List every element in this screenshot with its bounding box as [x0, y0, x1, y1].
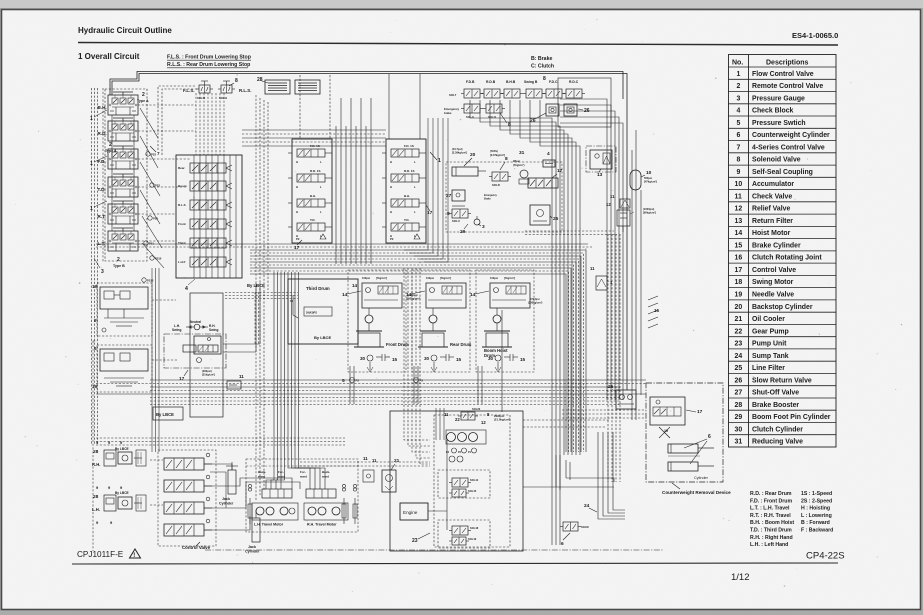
svg-text:8: 8: [737, 157, 741, 164]
svg-text:15: 15: [392, 357, 398, 362]
svg-text:H: H: [296, 185, 298, 189]
right horizontals to relief 12: [525, 230, 614, 232]
svg-text:H : Hoisting: H : Hoisting: [801, 506, 830, 512]
parts table: [729, 55, 837, 448]
svg-text:[0.07kg/cm²]: [0.07kg/cm²]: [490, 153, 505, 157]
travel brake valves: [262, 489, 292, 498]
svg-text:Descriptions: Descriptions: [766, 60, 809, 67]
swing control valve 17: [194, 336, 221, 354]
svg-text:Relief Valve: Relief Valve: [752, 206, 790, 213]
svg-text:Clutch Cylinder: Clutch Cylinder: [752, 426, 803, 433]
manifold valve unit Boom: [178, 181, 232, 191]
svg-text:8: 8: [235, 78, 238, 84]
svg-text:Check Block: Check Block: [752, 108, 794, 115]
svg-text:28: 28: [93, 449, 99, 455]
return filter 13: [590, 150, 612, 169]
control valve spool 2: [164, 480, 204, 492]
pressure switch PS3: [146, 152, 150, 156]
svg-text:SOL18: SOL18: [470, 526, 479, 530]
R.H. travel motor: [304, 503, 348, 520]
svg-text:PS10: PS10: [155, 257, 162, 261]
svg-text:L : Lowering: L : Lowering: [801, 513, 832, 519]
svg-text:L.T. : L.H. Travel: L.T. : L.H. Travel: [750, 506, 790, 512]
svg-text:L.H. : Left Hand: L.H. : Left Hand: [750, 542, 788, 548]
brake solenoid valves 8: [464, 89, 480, 98]
svg-text:R.D.: R.D.: [98, 131, 107, 136]
svg-text:C: Clutch: C: Clutch: [531, 64, 554, 70]
svg-text:ES4-1-0065.0: ES4-1-0065.0: [792, 31, 838, 40]
svg-text:Accumulator: Accumulator: [752, 181, 794, 188]
svg-text:B.H.B: B.H.B: [506, 80, 516, 84]
svg-text:ward: ward: [299, 475, 307, 479]
svg-text:L.H. Travel Motor: L.H. Travel Motor: [254, 523, 284, 527]
pressure gauge 3: [474, 219, 480, 225]
svg-text:2: 2: [117, 257, 120, 263]
svg-text:10: 10: [646, 170, 652, 176]
svg-text:11: 11: [372, 458, 377, 463]
pilot dashed header: [158, 86, 196, 150]
svg-text:(290psi): (290psi): [202, 369, 212, 373]
remote control valve 2 (T.D.): [98, 174, 139, 197]
line filter blocks 25: [265, 80, 290, 94]
line filter 25: [530, 205, 550, 225]
third drum box: [288, 279, 358, 344]
pump right exits: [523, 419, 610, 421]
manifold valve unit Front: [178, 219, 232, 229]
manifold to bank horizontals: [242, 129, 386, 131]
svg-text:31: 31: [519, 150, 525, 156]
pump unit 23 enclosure: [390, 411, 523, 551]
svg-text:4-Series Control Valve: 4-Series Control Valve: [752, 144, 825, 151]
svg-text:H: H: [390, 160, 392, 164]
footer rule: [72, 563, 838, 564]
third drum inner hook: [293, 295, 298, 318]
engine-pump connects: [349, 366, 351, 404]
counterweight cylinder 6a: [668, 444, 698, 453]
self-seal couplings 9: [248, 484, 251, 487]
svg-text:By LBCE: By LBCE: [156, 412, 174, 417]
mid connects swing: [152, 299, 176, 301]
svg-text:Cylinder: Cylinder: [219, 502, 234, 506]
svg-text:R.D. 1S: R.D. 1S: [404, 169, 415, 173]
solenoid box SOL14: [438, 470, 490, 498]
bottom-left bus band: [96, 437, 345, 439]
mid bus band: [250, 250, 586, 452]
svg-text:P2: P2: [390, 237, 394, 241]
svg-text:Self-Seal Coupling: Self-Seal Coupling: [752, 169, 813, 176]
remote control valve 2 (B.H.): [98, 92, 139, 115]
remote control valve 2 (F.D.): [98, 146, 139, 169]
svg-text:B.H.: B.H.: [310, 194, 316, 198]
solenoid valve 6: [563, 522, 578, 531]
svg-text:(330kg/cm²): (330kg/cm²): [528, 301, 543, 305]
control valve cascade lines: [204, 464, 232, 470]
svg-text:[7kg/cm²]: [7kg/cm²]: [440, 276, 451, 280]
left edge vertical bus: [91, 88, 93, 445]
svg-text:21: 21: [735, 316, 743, 323]
svg-text:Drum: Drum: [484, 353, 495, 358]
check valve 27: [452, 190, 465, 201]
svg-text:[21kg/cm²]: [21kg/cm²]: [202, 373, 215, 377]
svg-text:(34.7psi): (34.7psi): [452, 147, 463, 151]
rotating joint hatch: [648, 296, 658, 300]
svg-text:8: 8: [508, 122, 511, 128]
lower bus band: [150, 379, 646, 381]
svg-text:8: 8: [447, 211, 450, 217]
svg-text:8: 8: [543, 76, 546, 82]
remote control valve 2 (R.T.): [98, 201, 139, 224]
svg-text:13: 13: [597, 172, 603, 178]
remote control valve 2 (R.D.): [98, 118, 139, 141]
svg-text:100psi: 100psi: [426, 276, 434, 280]
svg-text:B.H.: B.H.: [98, 105, 107, 110]
svg-text:Control Valve: Control Valve: [752, 267, 796, 274]
pilot lines with pressure switches: [140, 108, 158, 138]
svg-text:SOLR: SOLR: [492, 183, 500, 187]
svg-text:Sump Tank: Sump Tank: [752, 353, 789, 360]
svg-text:SOL7: SOL7: [449, 93, 457, 97]
svg-text:Cylinder: Cylinder: [694, 476, 709, 480]
svg-text:L: L: [320, 160, 322, 164]
svg-text:By LBCE: By LBCE: [115, 491, 129, 495]
svg-text:F.D.C: F.D.C: [549, 80, 558, 84]
svg-text:Clutch Rotating Joint: Clutch Rotating Joint: [752, 255, 822, 262]
svg-text:Back-: Back-: [322, 470, 330, 474]
svg-text:T.D.: T.D.: [404, 218, 410, 222]
svg-text:2: 2: [737, 83, 741, 90]
svg-text:11: 11: [444, 412, 449, 417]
slow return valve 26: [546, 104, 559, 116]
engine box: [400, 503, 428, 520]
svg-text:[7kg/cm²]: [7kg/cm²]: [504, 276, 515, 280]
4-series control valve bank 7 (left): [288, 139, 332, 243]
solenoid drop bundle: [470, 100, 552, 545]
svg-text:Back-: Back-: [258, 470, 266, 474]
svg-text:4: 4: [547, 151, 550, 157]
title rule: [78, 43, 838, 46]
manifold valve unit L.H.F: [178, 257, 232, 267]
remote control valve 2 (L.T.): [98, 228, 139, 251]
mid bus band long pair: [96, 243, 588, 245]
slow return valve 26 right: [616, 390, 636, 409]
svg-text:R.L.S.: R.L.S.: [239, 88, 251, 93]
svg-text:4: 4: [737, 108, 741, 115]
svg-text:28: 28: [735, 402, 743, 409]
jack cylinder A: [228, 470, 236, 494]
svg-text:P2: P2: [296, 237, 300, 241]
svg-text:8: 8: [505, 156, 508, 162]
svg-text:23: 23: [412, 538, 418, 544]
svg-text:28: 28: [257, 77, 263, 83]
counterweight feed horizontals: [562, 409, 646, 411]
svg-text:Boom Foot Pin Cylinder: Boom Foot Pin Cylinder: [752, 414, 831, 421]
svg-text:Brake: Brake: [484, 198, 491, 201]
svg-text:R.T.: R.T.: [98, 214, 106, 219]
front drum motor group 14/15/30: [342, 270, 409, 372]
svg-text:11: 11: [363, 456, 368, 461]
svg-text:14: 14: [352, 283, 358, 288]
bottom mid horizontals: [300, 461, 430, 463]
svg-text:Oil Cooler: Oil Cooler: [752, 316, 785, 323]
svg-text:Brake Booster: Brake Booster: [752, 402, 799, 409]
svg-text:13: 13: [735, 218, 743, 225]
svg-text:1: 1: [737, 71, 741, 78]
slow return valve 26: [564, 104, 577, 116]
right lower verticals: [607, 234, 609, 482]
solenoid valve 8 SOLU: [452, 209, 468, 218]
svg-text:Reducing Valve: Reducing Valve: [752, 439, 803, 446]
pressure switch PS5: [148, 216, 152, 220]
svg-text:3: 3: [737, 95, 741, 102]
clutch solenoid wrap box: [558, 78, 611, 127]
svg-text:1 Overall Circuit: 1 Overall Circuit: [78, 52, 140, 61]
svg-text:14: 14: [342, 292, 348, 298]
svg-text:1/12: 1/12: [731, 572, 750, 583]
svg-text:Hoist Motor: Hoist Motor: [752, 230, 791, 237]
svg-text:2: 2: [109, 142, 112, 148]
gear pumps 22: [447, 433, 456, 442]
svg-text:R.D. 1S: R.D. 1S: [310, 169, 321, 173]
svg-text:L: L: [414, 210, 416, 214]
svg-text:17: 17: [697, 409, 703, 415]
svg-text:F : Backward: F : Backward: [801, 528, 833, 534]
return filter 13 enclosure: [586, 146, 616, 172]
pump feed bundle: [404, 268, 430, 440]
svg-text:R.H. Travel Motor: R.H. Travel Motor: [307, 523, 337, 527]
svg-text:Engine: Engine: [403, 510, 418, 515]
svg-text:22: 22: [735, 328, 743, 335]
svg-text:Type B: Type B: [113, 264, 125, 268]
svg-text:4724psi: 4724psi: [530, 297, 540, 301]
svg-text:7: 7: [737, 144, 741, 151]
svg-text:T.D. : Third Drum: T.D. : Third Drum: [750, 528, 792, 534]
control valve 17 cw: [650, 397, 685, 425]
rear drum motor group 14/15/30: [406, 270, 472, 372]
solenoid valve 8 SOLR: [492, 172, 508, 181]
svg-text:24: 24: [584, 503, 590, 509]
svg-text:(7kPa): (7kPa): [490, 149, 498, 153]
pressure switch PS10: [150, 256, 154, 260]
svg-text:100psi: 100psi: [362, 276, 370, 280]
svg-text:6: 6: [561, 541, 564, 547]
L.H. travel motor: [252, 503, 298, 520]
svg-text:18: 18: [735, 279, 743, 286]
svg-text:1: 1: [610, 280, 613, 285]
svg-text:29: 29: [735, 414, 743, 421]
svg-text:7: 7: [157, 151, 160, 156]
top scanner strip: [0, 0, 923, 8]
svg-text:500psi: 500psi: [644, 176, 652, 180]
manifold internal vertical lines: [193, 155, 195, 278]
svg-text:29(43)PS: 29(43)PS: [306, 311, 317, 315]
svg-text:27: 27: [446, 193, 452, 199]
svg-text:R.D.B: R.D.B: [486, 80, 496, 84]
svg-text:L.H.F: L.H.F: [178, 260, 186, 264]
svg-text:5: 5: [737, 120, 741, 127]
manifold valve unit Rear: [178, 163, 232, 173]
svg-text:B.H.: B.H.: [404, 194, 410, 198]
svg-text:3: 3: [482, 224, 485, 230]
svg-text:27: 27: [735, 390, 743, 397]
svg-text:11: 11: [590, 266, 595, 271]
svg-text:100psi: 100psi: [490, 276, 498, 280]
svg-text:Front: Front: [178, 222, 186, 226]
solenoid valve R.L.S. (8): [221, 85, 232, 93]
svg-text:Shut-Off Valve: Shut-Off Valve: [752, 390, 799, 397]
emergency brake solenoids: [464, 104, 480, 113]
pilot bus into manifold: [195, 93, 197, 155]
svg-text:H: H: [296, 160, 298, 164]
svg-text:By LBCE: By LBCE: [115, 447, 129, 451]
pressure switch PS13: [142, 278, 146, 282]
svg-text:Check Valve: Check Valve: [752, 193, 792, 200]
clutch solenoid valves 8: [546, 89, 562, 98]
svg-text:R.L.S. : Rear Drum Lowering St: R.L.S. : Rear Drum Lowering Stop: [167, 62, 250, 68]
drive shaft: [446, 440, 448, 530]
counterweight removal device enclosure: [646, 383, 723, 482]
svg-text:Solenoid Valve: Solenoid Valve: [752, 157, 801, 164]
booster-bank connects: [150, 459, 163, 461]
bank feed verticals: [299, 75, 301, 139]
svg-text:1: 1: [438, 158, 441, 164]
svg-text:14: 14: [470, 292, 476, 298]
svg-text:30: 30: [424, 356, 430, 361]
svg-text:Swing B: Swing B: [524, 80, 538, 84]
svg-text:28: 28: [93, 494, 99, 500]
svg-text:21: 21: [394, 458, 400, 464]
svg-text:11: 11: [239, 374, 244, 379]
jack cylinder B: [252, 518, 260, 542]
control valve spool 4: [164, 524, 204, 536]
oil cooler 21: [382, 470, 396, 492]
svg-text:Pressure Swtich: Pressure Swtich: [752, 120, 806, 127]
svg-text:SOL19: SOL19: [468, 537, 477, 541]
svg-text:Swing Motor: Swing Motor: [752, 279, 794, 286]
svg-text:19: 19: [664, 429, 668, 433]
svg-text:R.D.C: R.D.C: [569, 80, 579, 84]
needle valve group 19 upper: [97, 283, 152, 336]
svg-text:Counterweight Cylinder: Counterweight Cylinder: [752, 132, 830, 139]
svg-text:Line Filter: Line Filter: [752, 365, 785, 372]
svg-text:Boom: Boom: [178, 184, 187, 188]
svg-text:B: Brake: B: Brake: [531, 56, 552, 62]
svg-text:L: L: [320, 185, 322, 189]
svg-text:24: 24: [735, 353, 743, 360]
svg-text:PS1: PS1: [149, 242, 154, 246]
left mid supply verticals: [151, 268, 153, 452]
svg-text:16: 16: [735, 255, 743, 262]
pressure switch PS2: [150, 183, 154, 187]
svg-text:11: 11: [735, 193, 742, 200]
svg-text:SOL12: SOL12: [197, 96, 206, 100]
right nested corners: [560, 99, 607, 400]
left bottom frame: [92, 341, 94, 551]
svg-text:Swing: Swing: [172, 328, 181, 332]
svg-text:Slow Return Valve: Slow Return Valve: [752, 377, 812, 384]
svg-text:PS: PS: [356, 379, 360, 383]
svg-text:Neutral: Neutral: [190, 320, 201, 324]
svg-text:26: 26: [530, 118, 536, 124]
needle valve 19: [659, 427, 670, 438]
svg-text:Type A: Type A: [137, 99, 149, 103]
svg-text:Gear Pump: Gear Pump: [752, 328, 789, 335]
svg-text:!: !: [133, 553, 135, 559]
swing feed verticals: [254, 292, 256, 345]
svg-text:Backstop Cylinder: Backstop Cylinder: [752, 304, 813, 311]
svg-text:L.T.: L.T.: [98, 241, 106, 246]
wire stack connectors: [111, 115, 113, 231]
counterweight cylinder 6b: [668, 462, 698, 471]
swing feed horizontals: [225, 292, 298, 294]
svg-text:17: 17: [179, 376, 185, 382]
svg-text:2S : 2-Speed: 2S : 2-Speed: [801, 498, 832, 504]
svg-text:3: 3: [101, 269, 104, 275]
control valve bank enclosure: [158, 450, 216, 546]
svg-text:15: 15: [735, 243, 743, 250]
manifold valve unit Third: [178, 238, 232, 248]
svg-text:Front Drum: Front Drum: [386, 342, 409, 347]
svg-text:SOLU: SOLU: [452, 219, 460, 223]
pump lower band: [150, 400, 620, 402]
svg-text:No.: No.: [732, 60, 743, 67]
svg-text:Flow Control Valve: Flow Control Valve: [752, 71, 814, 78]
svg-text:Remote Control Valve: Remote Control Valve: [752, 83, 823, 90]
svg-text:SOL15: SOL15: [468, 489, 477, 493]
svg-text:For-: For-: [300, 470, 306, 474]
accumulator verticals: [631, 150, 633, 420]
svg-text:F.L.S. : Front Drum Lowering S: F.L.S. : Front Drum Lowering Stop: [167, 55, 251, 61]
misc connects top-left: [138, 104, 196, 106]
cluster dashed enclosure: [446, 162, 562, 232]
svg-text:Needle Valve: Needle Valve: [752, 292, 794, 299]
svg-text:SOL11: SOL11: [488, 115, 497, 119]
svg-text:20: 20: [470, 152, 476, 158]
abbreviation legend: [750, 491, 833, 548]
pressure switch 5: [414, 378, 419, 383]
svg-text:CP4-22S: CP4-22S: [806, 551, 845, 562]
svg-text:[95kg/cm²]: [95kg/cm²]: [643, 211, 656, 215]
svg-text:B.H. : Boom Hoist: B.H. : Boom Hoist: [750, 520, 794, 526]
svg-text:15: 15: [456, 357, 462, 362]
svg-text:L: L: [414, 185, 416, 189]
needle valve group 19 lower: [97, 345, 152, 392]
boom hoist motor group 14/15: [470, 270, 534, 372]
travel motor enclosure: [246, 459, 358, 532]
By LBCE label box: [153, 407, 183, 420]
frame left verticals: [255, 95, 257, 500]
svg-text:H: H: [390, 185, 392, 189]
svg-text:R.L.S: R.L.S: [178, 203, 186, 207]
svg-text:12: 12: [481, 420, 486, 425]
svg-text:[47kg/cm²]: [47kg/cm²]: [644, 180, 657, 184]
check block 4 outline: [176, 155, 242, 278]
svg-text:31: 31: [735, 439, 743, 446]
bottom dash-dot border: [205, 549, 663, 551]
svg-text:Pump Unit: Pump Unit: [752, 341, 787, 348]
svg-text:F.D. 1S: F.D. 1S: [404, 144, 414, 148]
svg-text:Wiper: Wiper: [513, 159, 520, 163]
svg-text:9: 9: [737, 169, 741, 176]
svg-text:5: 5: [342, 378, 345, 384]
svg-text:10: 10: [735, 181, 743, 188]
svg-text:4: 4: [185, 286, 188, 292]
svg-text:2: 2: [142, 92, 145, 98]
travel feed bundle: [266, 272, 274, 489]
svg-text:12: 12: [735, 206, 743, 213]
svg-text:Jack: Jack: [222, 497, 230, 501]
svg-text:25: 25: [735, 365, 743, 372]
svg-text:14: 14: [735, 230, 743, 237]
